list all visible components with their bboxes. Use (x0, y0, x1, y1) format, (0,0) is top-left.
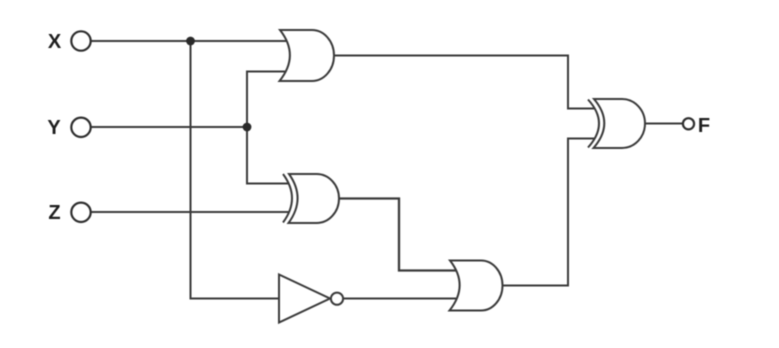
or-gate U4 (bottom right) (450, 261, 503, 311)
not-gate U3 triangle (279, 275, 330, 323)
wire Y branch up to OR1 U1 lower input (247, 72, 290, 128)
wire Z input to XOR1 U2 lower input (92, 211, 290, 213)
wire XOR1 U2 output to OR2 U4 top input (339, 199, 458, 271)
input terminal Z (71, 203, 90, 222)
or-gate U1 (X OR Y) (280, 30, 335, 81)
wire Y branch down to XOR1 U2 top input (247, 127, 289, 184)
wire Y input to node B (92, 126, 248, 128)
wire X input to OR1 U1 top input (92, 40, 291, 42)
wire OR1 U1 output to XOR2 U5 top input (334, 56, 595, 109)
xor-gate U5 (output) input arc (588, 100, 599, 148)
wire XOR2 U5 output to terminal F (645, 123, 683, 125)
xor-gate U2 (Y XOR Z) body (289, 174, 340, 223)
not-gate U3 bubble (331, 293, 343, 305)
wire NOT U3 output to OR2 U4 lower input (343, 298, 459, 300)
svg-text:Y: Y (47, 117, 61, 139)
output terminal F (683, 118, 694, 129)
xor-gate U2 (Y XOR Z) input arc (283, 174, 292, 223)
input terminal Y (71, 118, 90, 137)
svg-text:X: X (48, 31, 62, 53)
wire X branch down to NOT U3 input (191, 41, 282, 299)
node A junction dot on X line (186, 37, 195, 46)
svg-text:Z: Z (48, 202, 60, 224)
node B junction dot on Y line (243, 123, 252, 132)
input terminal X (71, 31, 90, 50)
wire OR2 U4 output to XOR2 U5 lower input (503, 139, 595, 286)
xor-gate U5 (output) body (594, 99, 646, 148)
svg-text:F: F (698, 115, 710, 137)
